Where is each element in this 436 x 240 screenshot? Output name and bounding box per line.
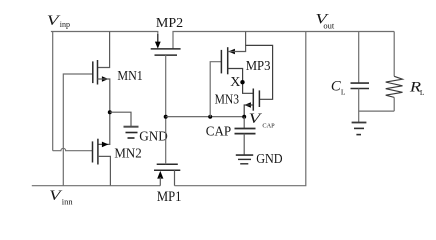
transistor MN3 <box>244 89 259 111</box>
svg-text:GND: GND <box>256 152 282 167</box>
wire MN1 drain to Vinp rail <box>98 32 110 68</box>
node Vout label <box>315 12 335 31</box>
svg-text:out: out <box>323 20 335 30</box>
wire MN2 gate with hop over MN1 gate wire <box>53 148 93 150</box>
node Vinp label <box>47 13 70 29</box>
ground GND1 <box>124 127 139 138</box>
capacitor CL <box>351 32 370 123</box>
wire top rail Vout <box>173 32 394 49</box>
wire MN3 source to Vcap <box>244 105 253 117</box>
ground GND2 <box>236 155 253 164</box>
svg-text:L: L <box>341 88 346 97</box>
wire bottom rail right to Vout <box>175 32 306 186</box>
node Vcap label <box>249 111 275 129</box>
svg-text:L: L <box>420 88 425 97</box>
wire CL to RL bottom <box>359 110 395 112</box>
transistor MP1 <box>154 164 180 185</box>
wire MP2 gate to MP1 gate <box>165 55 167 164</box>
svg-text:GND: GND <box>139 129 168 144</box>
resistor RL <box>386 32 403 112</box>
node junction dot Vcap-gate <box>164 115 168 119</box>
capacitor CAP <box>235 117 256 155</box>
wire MN2 drain to Vinn rail <box>98 156 111 185</box>
transistor MN2 <box>93 139 109 165</box>
svg-text:MP1: MP1 <box>157 189 182 205</box>
svg-text:inp: inp <box>60 20 70 29</box>
wire MP3 drain to node X to MN3 drain <box>228 69 254 94</box>
wire branch to ground GND1 <box>110 112 131 127</box>
svg-text:CAP: CAP <box>262 122 275 129</box>
transistor MN1 <box>93 60 109 85</box>
wire Vinp rail to MP2 source <box>51 32 158 44</box>
node junction dot MP3 gate <box>208 115 212 119</box>
wire MN1 source to MN2 source <box>98 79 110 144</box>
svg-text:MP2: MP2 <box>156 16 183 31</box>
label CL <box>331 78 346 96</box>
wire MN3 gate branch <box>246 45 273 99</box>
transistor MP3 <box>221 47 235 74</box>
wire MN1 gate down to Vinn rail <box>63 74 93 186</box>
svg-text:inn: inn <box>62 196 74 206</box>
wire MP3 gate <box>210 62 221 117</box>
svg-text:MP3: MP3 <box>246 59 271 74</box>
svg-text:MN3: MN3 <box>215 93 239 108</box>
node junction dot tail <box>108 110 112 114</box>
svg-text:V: V <box>249 111 263 127</box>
wire left rail Vinp down <box>52 32 54 151</box>
transistor MP2 <box>151 42 181 56</box>
ground GND3 <box>352 123 367 135</box>
wire Vinn bottom rail left <box>32 185 161 187</box>
node junction dot Vcap <box>242 115 246 119</box>
svg-text:MN2: MN2 <box>114 146 141 161</box>
label RL <box>409 79 425 97</box>
wire MP3 source to Vout rail <box>228 32 246 52</box>
svg-text:MN1: MN1 <box>117 69 142 84</box>
node Vinn label <box>49 188 73 206</box>
wire Vcap rail <box>166 116 245 118</box>
node X dot <box>240 80 244 84</box>
svg-text:X: X <box>230 75 240 90</box>
svg-text:CAP: CAP <box>206 124 232 139</box>
